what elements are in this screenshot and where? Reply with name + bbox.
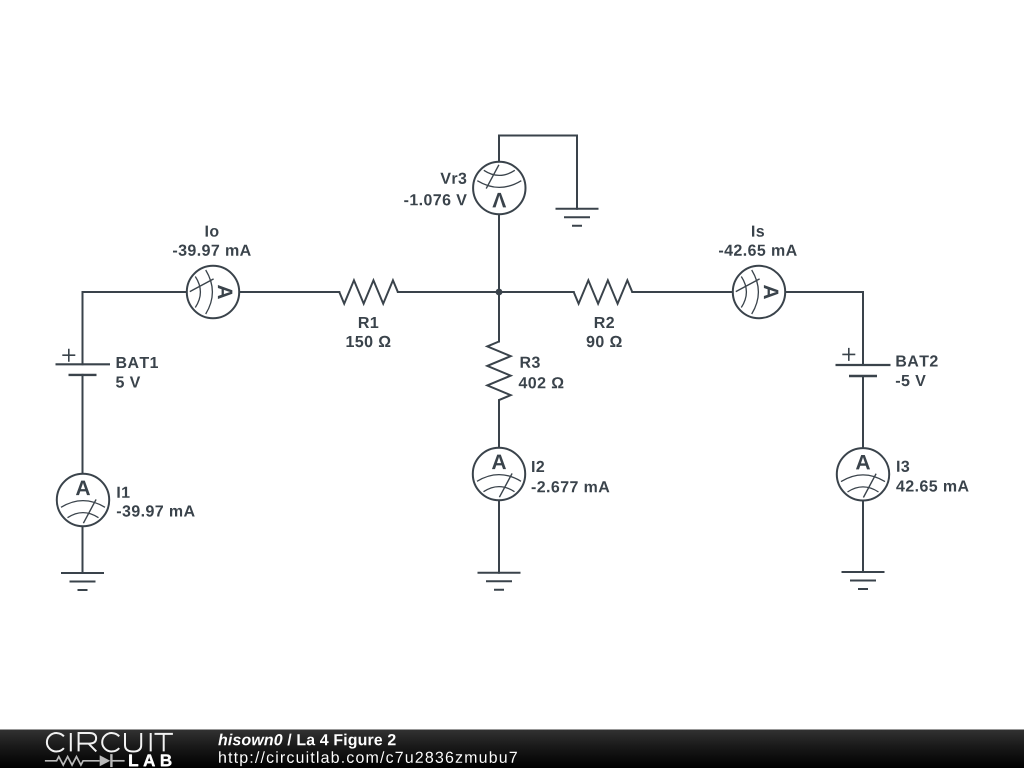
wire: net from R2 to BAT2 corner: [632, 291, 863, 293]
label BAT2 value -5 V: [896, 375, 926, 386]
label R2 name: [595, 317, 614, 328]
label I2 name: [532, 461, 544, 472]
wire: Vr3 top over to top-right ground: [499, 136, 577, 209]
label I1 name: [117, 487, 129, 498]
label Io name: [206, 226, 219, 237]
ground below I1: [61, 573, 104, 590]
footer url: [219, 751, 517, 766]
label Vr3 name: [440, 173, 466, 184]
ammeter I3: [837, 448, 889, 500]
wire: R3 through I2 to center ground: [498, 400, 500, 573]
node: center junction dot: [496, 289, 503, 296]
ammeter I1: [57, 474, 109, 526]
label R3 value 402 ohm: [519, 377, 564, 388]
label I3 name: [897, 461, 909, 472]
battery BAT2: [836, 348, 891, 376]
label R3 name: [521, 357, 540, 368]
label Is value -42.65 mA: [719, 245, 797, 256]
wire: center node up to Vr3: [498, 214, 500, 292]
footer title: hisown0 / La 4 Figure 2: [218, 734, 395, 749]
ground below I2: [478, 573, 521, 590]
ammeter Is: [733, 266, 785, 318]
wire: right rail down to BAT2 top plate: [862, 292, 864, 365]
label BAT1 name: [117, 357, 158, 368]
resistor R2: [574, 280, 633, 303]
logo diode triangle: [100, 755, 111, 766]
label I3 value 42.65 mA: [896, 480, 968, 491]
label Io value -39.97 mA: [173, 245, 251, 256]
label R1 name: [359, 317, 378, 328]
label Is name: [752, 226, 764, 237]
label Vr3 value -1.076 V: [404, 194, 467, 205]
wire: left rail down to BAT1 top plate: [82, 292, 84, 364]
wire: center node down to R3: [498, 292, 500, 342]
label R2 value 90 ohm: [587, 336, 622, 347]
resistor R1: [339, 280, 398, 303]
label BAT2 name: [896, 355, 937, 366]
wire: right rail from BAT2 bottom through I3 to ground: [862, 376, 864, 572]
label R1 value 150 ohm: [347, 336, 391, 347]
battery BAT1: [56, 349, 111, 375]
ground at Vr3 return: [556, 209, 599, 226]
wire: net between R1 and R2 through center node: [398, 291, 574, 293]
label I1 value -39.97 mA: [117, 505, 195, 516]
voltmeter Vr3: [473, 162, 525, 214]
logo schematic: resistor and diode: [45, 754, 125, 767]
label I2 value -2.677 mA: [532, 481, 610, 492]
label BAT1 value 5 V: [116, 377, 140, 388]
logo CIRCUIT lettering: [47, 733, 173, 752]
ammeter I2: [473, 448, 525, 500]
ground below I3: [842, 572, 885, 589]
wire: main horizontal net from BAT1 corner to R1: [83, 291, 340, 293]
wire: left rail from BAT1 bottom through I1 to ground: [82, 375, 84, 573]
ammeter Io: [187, 266, 239, 318]
logo LAB text: [129, 755, 171, 767]
resistor R3: [487, 342, 510, 401]
